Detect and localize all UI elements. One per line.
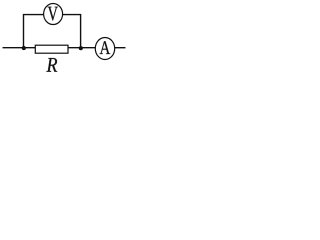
node left junction bbox=[22, 46, 26, 50]
wire bottom-left segment bbox=[3, 47, 36, 49]
ammeter A circle bbox=[95, 38, 114, 60]
wire resistor-to-right-junction segment bbox=[68, 47, 96, 49]
wire top-right horizontal and right vertical bbox=[62, 15, 80, 48]
resistor R bbox=[35, 45, 68, 53]
label R bbox=[46, 58, 57, 72]
voltmeter V circle bbox=[44, 4, 63, 25]
wire left vertical and top-left horizontal bbox=[24, 15, 44, 48]
ammeter letter A bbox=[100, 41, 111, 54]
voltmeter letter V bbox=[48, 7, 58, 21]
wire ammeter-to-right-end segment bbox=[114, 47, 125, 49]
node right junction bbox=[79, 46, 83, 50]
